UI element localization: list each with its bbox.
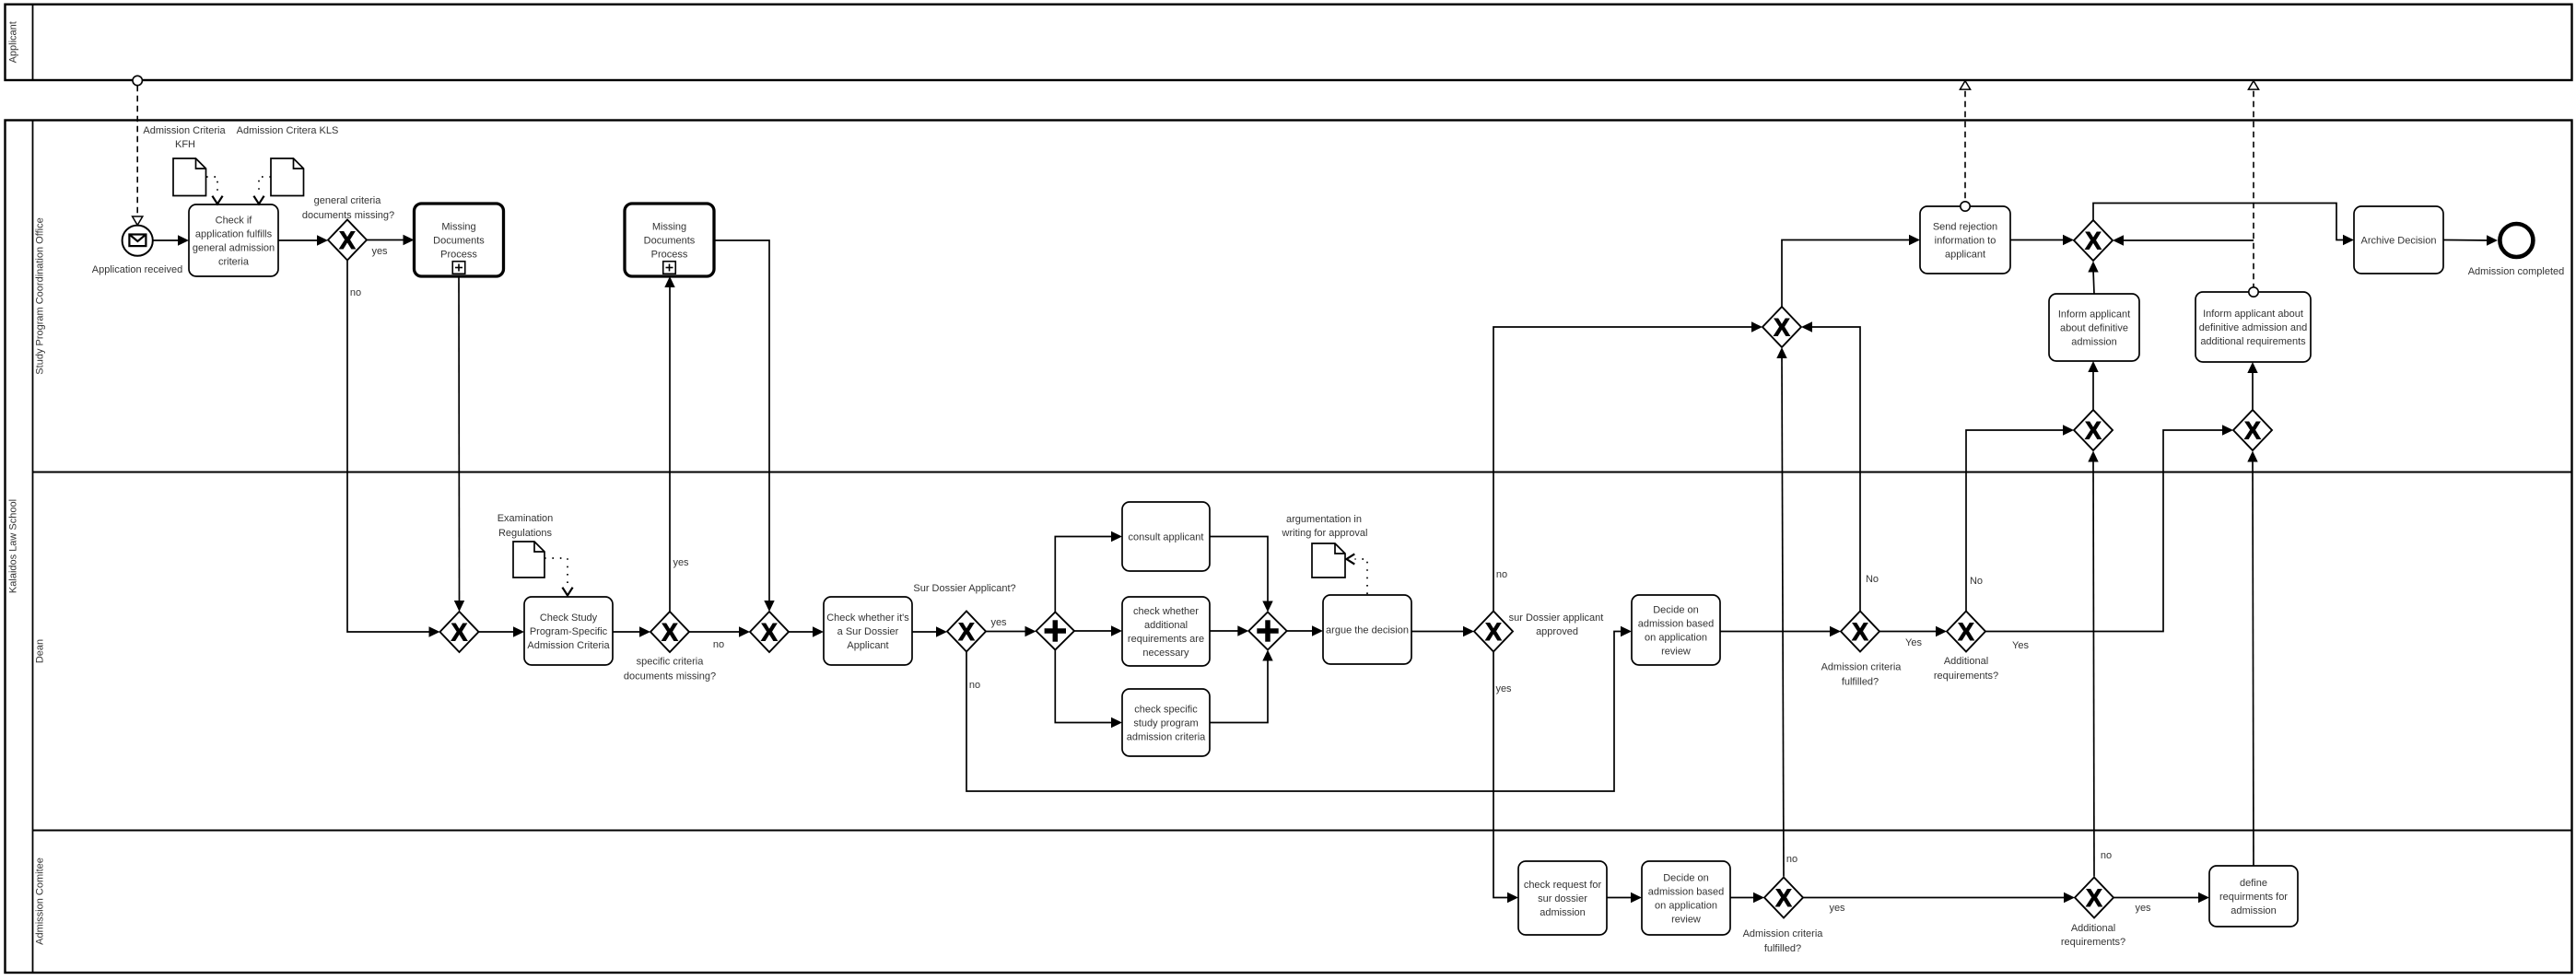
svg-text:argue the decision: argue the decision [1326,625,1409,636]
svg-text:admission: admission [2231,905,2277,916]
svg-text:X: X [958,618,975,646]
svg-text:X: X [662,619,678,647]
svg-text:Regulations: Regulations [498,528,553,539]
flow: Send rejection -> merge gateway [2010,235,2074,245]
svg-text:criteria: criteria [218,257,250,268]
gateway (XOR): sur Dossier applicant approved [1474,612,1513,652]
data object: Admission Criteria KFH [143,125,226,196]
svg-text:Admission criteria: Admission criteria [1821,662,1903,673]
svg-text:No: No [1970,576,1983,587]
flow: approved no -> merge rejection [1493,321,1762,611]
pool: Applicant [6,5,2572,80]
svg-text:define: define [2240,878,2267,889]
svg-text:X: X [2085,227,2102,255]
flow: Check Study -> gateway specific criteria [613,626,650,636]
svg-text:X: X [2086,884,2102,912]
flow: Inform def+add requirements -> merge gateway [2113,235,2254,245]
flow: merge -> Check whether Sur Dossier [789,626,824,636]
svg-text:application fulfills: application fulfills [195,229,273,240]
svg-text:approved: approved [1536,626,1578,637]
flow: start -> Check if application fulfills [153,235,189,245]
association: argue the decision -> argumentation in writing [1347,554,1368,594]
svg-text:yes: yes [990,617,1007,628]
flow: check whether additional -> join [1210,625,1248,636]
task: check request for sur dossier admission [1518,861,1607,935]
svg-text:Check whether it's: Check whether it's [826,612,909,624]
task: Check whether it's a Sur Dossier Applicant [824,597,912,665]
svg-text:yes: yes [1495,683,1512,694]
flow: Decide (Dean) -> gateway criteria fulfilled (Dean) [1720,626,1841,636]
gateway label: general criteria documents missing? [302,195,394,221]
svg-text:study program: study program [1133,718,1198,729]
flow: check request -> Decide on admission (Comitee) [1607,892,1642,903]
svg-text:Admission Comitee: Admission Comitee [35,857,46,945]
flow: split -> consult applicant [1055,531,1122,612]
svg-text:Study Program Coordination Off: Study Program Coordination Office [35,217,46,374]
svg-text:admission: admission [1540,907,1586,918]
svg-text:fulfilled?: fulfilled? [1764,943,1801,954]
task: Inform applicant about definitive admission [2049,294,2139,361]
flow: merge -> Check Study Program-Specific [479,626,525,636]
flow: check specific -> join [1210,650,1273,723]
svg-text:Additional: Additional [1944,656,1988,667]
svg-text:no: no [350,287,361,298]
svg-text:Documents: Documents [433,236,485,247]
flow: merge -> Inform applicant about definitive admission [2088,361,2098,410]
svg-text:X: X [1852,618,1868,646]
task: Archive Decision [2354,206,2443,274]
svg-text:Application received: Application received [92,264,182,275]
gateway label: specific criteria documents missing? [624,657,716,682]
task: check whether additional requirements are necessary [1122,597,1210,666]
flow: merge -> Inform def+add requirements [2247,362,2257,410]
svg-text:X: X [2085,417,2102,445]
svg-text:writing for approval: writing for approval [1282,528,1368,539]
svg-text:Applicant: Applicant [7,21,18,63]
svg-text:Examination: Examination [498,513,554,524]
svg-text:Kalaidos Law School: Kalaidos Law School [7,499,18,593]
svg-text:no: no [1786,854,1797,865]
svg-text:Dean: Dean [35,639,46,663]
flow: split -> check specific study program criteria [1055,650,1122,729]
start event: Application received (message) [92,226,182,275]
svg-text:KFH: KFH [175,139,195,150]
svg-text:sur Dossier applicant: sur Dossier applicant [1509,612,1604,624]
svg-text:X: X [2244,417,2261,445]
gateway (XOR): Additional requirements? (Comitee) [2075,878,2113,918]
svg-text:general admission: general admission [193,243,275,254]
flow: Sur Dossier yes -> parallel split [986,617,1036,636]
svg-text:general criteria: general criteria [314,195,382,206]
svg-text:Process: Process [651,250,688,261]
flow: additional req (Dean) Yes -> merge before Inform def+add [1985,425,2233,651]
flow: merge gateway -> Archive Decision [2093,204,2354,246]
association: Examination Regulations -> Check Study [544,558,573,596]
svg-text:no: no [1496,569,1507,580]
svg-text:additional requirements: additional requirements [2200,336,2306,347]
flow: approved yes -> check request for sur dossier [1493,652,1518,904]
flow: consult applicant -> join [1210,537,1273,612]
svg-text:documents missing?: documents missing? [302,210,394,221]
task: Inform applicant about definitive admission and additional requirements [2195,292,2311,362]
svg-text:Decide on: Decide on [1663,873,1709,884]
svg-text:requirements are: requirements are [1128,634,1204,645]
svg-text:Admission completed: Admission completed [2468,266,2565,277]
task: Send rejection information to applicant [1920,206,2010,274]
flow: merge rejection -> Send rejection information [1782,235,1920,307]
svg-text:Program-Specific: Program-Specific [530,626,608,637]
association: Admission Criteria KFH -> Check if [206,177,223,204]
svg-text:Inform applicant about: Inform applicant about [2203,309,2303,320]
flow: Sur Dossier no -> Decide on admission (Dean) [966,626,1632,791]
svg-text:Archive Decision: Archive Decision [2361,236,2437,247]
svg-text:yes: yes [2135,903,2151,914]
svg-text:Sur Dossier Applicant?: Sur Dossier Applicant? [913,583,1015,594]
svg-text:yes: yes [1829,903,1845,914]
svg-text:on application: on application [1645,633,1707,644]
gateway label: Additional requirements? (Comitee) [2061,923,2125,948]
gateway (XOR): Sur Dossier Applicant? [947,612,986,652]
flow: Archive Decision -> end event [2443,235,2498,245]
svg-text:Additional: Additional [2071,923,2115,934]
flow: Missing Documents 2 -> merge (Dean) [714,240,775,612]
svg-text:admission based: admission based [1648,887,1725,898]
flow: gateway specific no -> merge [689,626,750,650]
gateway label: Sur Dossier Applicant? [913,583,1015,594]
svg-text:applicant: applicant [1945,250,1985,261]
svg-text:Check Study: Check Study [540,612,598,624]
flow: argue the decision -> gateway approved [1411,626,1474,636]
lane: Study Program Coordination Office [33,217,2572,472]
svg-text:fulfilled?: fulfilled? [1842,677,1879,688]
svg-text:admission based: admission based [1638,619,1715,630]
gateway (XOR): merge to Send rejection / Archive [2074,220,2113,261]
svg-text:check request for: check request for [1524,880,1602,891]
flow: additional req yes -> define requirments [2113,892,2209,914]
flow: Decide (Comitee) -> gateway criteria fulfilled [1730,892,1764,903]
svg-text:check specific: check specific [1134,705,1198,716]
flow: join -> argue the decision [1287,625,1323,636]
svg-text:specific criteria: specific criteria [637,657,705,668]
gateway (XOR): Additional requirements? (Dean) [1947,612,1985,652]
svg-text:information to: information to [1935,236,1996,247]
task: Missing Documents Process (2) [625,204,714,276]
task: argue the decision [1323,595,1411,664]
gateway label: Additional requirements? (Dean) [1934,656,1998,682]
association: Admission Critera KLS -> Check if [253,177,271,204]
svg-text:a Sur Dossier: a Sur Dossier [837,626,899,637]
flow: Missing Documents 1 -> merge (Dean) [454,276,464,612]
task: consult applicant [1122,502,1210,571]
svg-text:No: No [1866,574,1879,585]
gateway (XOR): merge rejection [1762,307,1801,347]
message flow: Applicant -> Application received [133,76,143,225]
svg-text:Process: Process [440,250,477,261]
task: Decide on admission based on application review (Admission Comitee) [1642,861,1730,935]
gateway (XOR): Admission criteria fulfilled? (Dean) [1841,612,1879,652]
task: Missing Documents Process (1) [415,204,504,276]
svg-text:Yes: Yes [2012,640,2029,651]
svg-text:Yes: Yes [1905,637,1922,648]
task: Check Study Program-Specific Admission Criteria [524,597,613,665]
gateway (XOR): merge before Check Study Program-Specific [440,612,479,652]
svg-text:no: no [713,639,724,650]
svg-text:requirements?: requirements? [2061,937,2125,948]
svg-text:no: no [2101,850,2112,861]
flow: define requirments -> merge before Inform def+add [2247,451,2257,867]
flow: gateway general criteria no -> merge (Dean) [347,261,440,637]
flow: split -> check whether additional requirements [1074,625,1122,636]
svg-text:admission criteria: admission criteria [1127,732,1206,743]
task: define requirments for admission [2209,866,2298,927]
flow: criteria fulfilled no -> merge rejection [1776,347,1797,877]
svg-text:sur dossier: sur dossier [1538,893,1587,904]
flow: gateway general criteria yes -> Missing Documents 1 [367,235,415,257]
svg-text:on application: on application [1655,901,1717,912]
svg-text:Send rejection: Send rejection [1933,222,1997,233]
flow: criteria fulfilled yes -> gateway additional req [1803,892,2075,914]
svg-text:additional: additional [1144,620,1188,631]
gateway (XOR): specific criteria documents missing? [650,612,689,652]
svg-text:necessary: necessary [1142,647,1189,659]
svg-text:review: review [1671,915,1701,926]
message flow: Inform def+add requirements -> Applicant [2248,81,2258,297]
svg-text:no: no [969,680,980,691]
gateway label: Admission criteria fulfilled? (Dean) [1821,662,1903,688]
data object: Admission Critera KLS [237,125,339,196]
lane: Admission Comitee [35,857,46,945]
gateway (AND): parallel split [1036,612,1074,650]
svg-text:Inform applicant: Inform applicant [2058,309,2130,321]
svg-text:definitive admission and: definitive admission and [2199,322,2307,333]
gateway (XOR): merge before Inform definitive + additional [2233,410,2272,450]
svg-text:X: X [1485,618,1502,646]
flow: criteria fulfilled (Dean) No -> merge rejection [1801,321,1879,611]
svg-text:Admission Criteria: Admission Criteria [527,640,610,651]
message flow: Send rejection information -> Applicant [1960,81,1970,212]
flow: criteria fulfilled (Dean) Yes -> additional req (Dean) [1879,626,1947,648]
svg-text:yes: yes [673,557,689,568]
svg-text:documents missing?: documents missing? [624,671,716,682]
svg-text:Applicant: Applicant [847,640,888,651]
svg-text:Decide on: Decide on [1653,605,1699,616]
data object: argumentation in writing for approval [1282,514,1368,577]
flow: Inform definitive admission -> merge gateway [2088,262,2098,295]
lane: Dean [33,639,2572,831]
gateway (XOR): merge before Check whether Sur Dossier [750,612,789,652]
svg-text:check whether: check whether [1133,606,1199,617]
gateway label: sur Dossier applicant approved [1509,612,1604,637]
flow: Check if -> gateway general criteria missing [278,235,328,245]
gateway (XOR): general criteria documents missing? [328,220,367,261]
svg-text:about definitive: about definitive [2060,323,2128,334]
svg-text:X: X [761,619,778,647]
flow: additional req (Dean) No -> merge before Inform definitive [1966,425,2074,611]
svg-text:argumentation in: argumentation in [1286,514,1362,525]
flow: Check whether -> gateway Sur Dossier? [912,626,947,636]
task: check specific study program admission criteria [1122,689,1210,756]
svg-text:X: X [1775,884,1792,912]
svg-text:X: X [1958,618,1974,646]
gateway (XOR): Admission criteria fulfilled? (Comitee) [1764,878,1803,918]
task: Decide on admission based on application review (Dean) [1632,595,1720,665]
gateway (AND): parallel join [1248,612,1286,650]
svg-text:admission: admission [2071,337,2117,348]
flow: additional req no -> merge before Inform definitive [2088,451,2112,877]
flow: gateway specific yes -> Missing Documents 2 [664,276,689,612]
svg-text:yes: yes [371,246,388,257]
svg-text:review: review [1661,647,1691,658]
svg-text:Missing: Missing [441,222,475,233]
svg-text:X: X [339,227,356,254]
task: Check if application fulfills general admission criteria [189,204,278,276]
svg-text:consult applicant: consult applicant [1129,532,1204,543]
svg-text:Check if: Check if [216,216,253,227]
svg-text:X: X [1774,314,1790,342]
svg-text:X: X [451,619,468,647]
svg-text:requirments for: requirments for [2219,892,2288,903]
svg-text:Missing: Missing [652,222,686,233]
svg-text:Admission criteria: Admission criteria [1743,928,1824,939]
data object: Examination Regulations [498,513,554,577]
svg-text:Documents: Documents [644,236,696,247]
svg-text:Admission Criteria: Admission Criteria [143,125,226,136]
end event: Admission completed [2468,224,2565,277]
svg-text:Admission Critera KLS: Admission Critera KLS [237,125,339,136]
gateway label: Admission criteria fulfilled? (Comitee) [1743,928,1824,954]
svg-text:requirements?: requirements? [1934,671,1998,682]
gateway (XOR): merge before Inform definitive admission [2074,410,2113,450]
